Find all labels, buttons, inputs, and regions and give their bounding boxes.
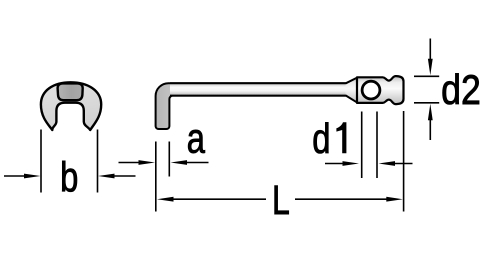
d2 bottom arrow bbox=[429, 120, 431, 140]
b left arrow bbox=[4, 175, 26, 177]
socket cross hole bbox=[362, 81, 380, 99]
svg-text:a: a bbox=[187, 115, 205, 162]
svg-text:L: L bbox=[272, 177, 290, 223]
b right arrow bbox=[112, 175, 136, 177]
dimension b: extension lines bbox=[40, 130, 42, 193]
a right arrow bbox=[184, 162, 209, 164]
shaft fill overlay bbox=[170, 83, 346, 95]
svg-text:d2: d2 bbox=[441, 67, 481, 113]
svg-text:d: d bbox=[312, 115, 330, 162]
L right arrow bbox=[295, 198, 389, 200]
dimension L: right extension line bbox=[403, 111, 405, 212]
cone taper fill bbox=[346, 77, 358, 103]
dimension d1: extension lines bbox=[361, 112, 363, 179]
L-wrench leg + shaft bbox=[156, 83, 346, 129]
socket body bbox=[357, 76, 404, 104]
socket left face line bbox=[356, 77, 358, 103]
shaft+cone outline bbox=[170, 78, 357, 103]
d1 left arrow bbox=[325, 163, 345, 165]
svg-text:b: b bbox=[60, 154, 78, 201]
dimension a: extension lines bbox=[155, 142, 157, 212]
L left arrow bbox=[170, 198, 266, 200]
d1 right arrow bbox=[392, 163, 413, 165]
crowfoot drive inset bbox=[58, 83, 83, 100]
dimension d2: ticks bbox=[414, 75, 439, 77]
d2 top arrow bbox=[429, 39, 431, 61]
crowfoot head outer body bbox=[41, 82, 101, 130]
a left arrow bbox=[119, 162, 142, 164]
